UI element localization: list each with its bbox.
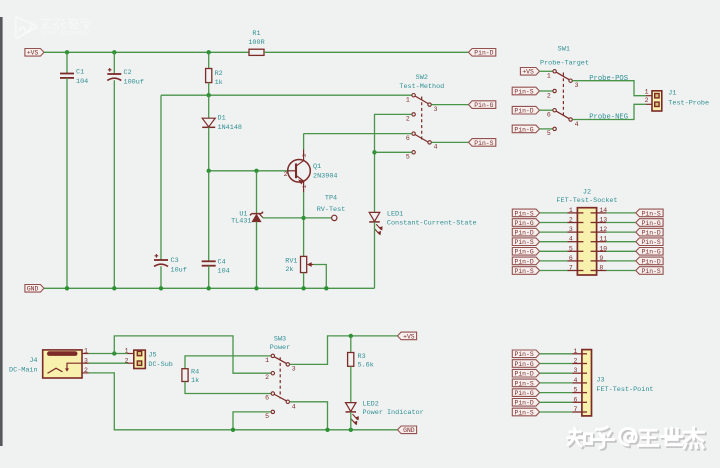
junction GND C2 <box>112 286 116 290</box>
wire J2 pin 9 <box>606 260 635 262</box>
svg-text:Pin-D: Pin-D <box>514 108 533 115</box>
switch SW2 pole A lever <box>415 96 428 104</box>
wire J2 pin 8 <box>606 270 635 272</box>
potentiometer RV1 2k <box>301 256 307 272</box>
svg-text:Pin-G: Pin-G <box>515 361 534 368</box>
svg-text:+VS: +VS <box>522 69 534 76</box>
svg-text:Pin-S: Pin-S <box>515 268 534 275</box>
pin 14 J2 <box>591 212 607 214</box>
junction GND C4 <box>207 286 211 290</box>
hierarchical label Pin-D J3 pin 3 <box>512 369 539 377</box>
svg-text:Pin-D: Pin-D <box>642 258 661 265</box>
svg-text:4: 4 <box>573 377 577 384</box>
svg-text:Pin-G: Pin-G <box>642 249 661 256</box>
svg-text:3: 3 <box>84 357 88 364</box>
hierarchical label Pin-S J2 pin 8 <box>636 267 663 275</box>
svg-text:8: 8 <box>599 265 603 272</box>
svg-text:J2: J2 <box>583 189 591 197</box>
pin 9 J2 <box>591 260 607 262</box>
svg-text:Pin-G: Pin-G <box>515 390 534 397</box>
svg-text:9: 9 <box>599 255 603 262</box>
svg-text:1: 1 <box>573 348 577 355</box>
svg-text:6: 6 <box>569 255 573 262</box>
svg-text:104: 104 <box>218 268 230 276</box>
resistor R3 5.6k <box>350 336 352 353</box>
hierarchical label Pin-S J2 pin 1 <box>512 209 539 217</box>
svg-text:Pin-S: Pin-S <box>474 140 493 147</box>
svg-text:Pin-S: Pin-S <box>515 380 534 387</box>
svg-text:GND: GND <box>27 286 39 293</box>
wire DC positive up-over to SW3 pin2 <box>114 336 271 373</box>
wire SW3 pin4 to ground rail <box>290 402 328 430</box>
hierarchical label Pin-S at SW1 <box>512 87 539 95</box>
wire +VS rail left <box>44 51 249 53</box>
svg-text:DC-Sub: DC-Sub <box>148 361 172 369</box>
svg-text:Pin-S: Pin-S <box>642 268 661 275</box>
pin 1 J2 <box>568 212 584 214</box>
svg-text:Probe-POS: Probe-POS <box>589 75 628 83</box>
wire R4 bottom to SW3 pin6 <box>185 382 271 394</box>
svg-text:Pin-D: Pin-D <box>642 230 661 237</box>
svg-text:5: 5 <box>406 154 410 161</box>
svg-text:10: 10 <box>599 245 607 252</box>
wire Pin-G to SW1 pin5 <box>540 128 553 130</box>
svg-text:2k: 2k <box>285 266 293 274</box>
wire Q1 emitter down <box>303 192 305 256</box>
switch SW1 dashed link <box>562 73 564 117</box>
svg-text:DC-Main: DC-Main <box>9 366 38 374</box>
svg-text:C4: C4 <box>218 259 226 267</box>
wire Pin-S to SW1 pin2 <box>540 90 553 92</box>
wire node R2 bottom horizontal <box>161 94 413 96</box>
svg-text:C1: C1 <box>76 69 84 77</box>
svg-text:6: 6 <box>265 395 269 402</box>
wire SW2 pin3 to Pin-G <box>432 104 469 106</box>
svg-text:2N3904: 2N3904 <box>313 172 337 180</box>
junction U1 top <box>254 169 258 173</box>
pin 2 J4 <box>82 372 89 374</box>
hierarchical label Pin-D J2 pin 3 <box>512 228 539 236</box>
wire J3 pin 1 <box>540 353 573 355</box>
svg-text:2: 2 <box>265 374 269 381</box>
svg-text:10uf: 10uf <box>171 266 187 274</box>
pin 2 J2 <box>568 222 584 224</box>
svg-text:Pin-G: Pin-G <box>474 102 493 109</box>
pin 1 J4 <box>82 353 89 355</box>
transistor Q1 2N3904 <box>288 160 311 183</box>
connector J3 FET-Test-Point <box>582 350 592 416</box>
switch SW3 dashed link <box>279 357 281 398</box>
svg-text:Pin-S: Pin-S <box>642 210 661 217</box>
svg-text:Pin-G: Pin-G <box>515 249 534 256</box>
svg-text:1: 1 <box>265 357 269 364</box>
wire J3 pin 6 <box>540 401 573 403</box>
svg-text:4: 4 <box>292 404 296 411</box>
pin 13 J2 <box>591 222 607 224</box>
pin 10 J2 <box>591 250 607 252</box>
svg-text:Pin-S: Pin-S <box>514 88 533 95</box>
wire Pin-D to SW1 pin6 <box>540 109 553 111</box>
svg-text:14: 14 <box>599 207 607 214</box>
shunt regulator U1 TL431 <box>256 171 258 214</box>
svg-text:Pin-S: Pin-S <box>515 409 534 416</box>
wire J3 pin 5 <box>540 392 573 394</box>
svg-text:LED2: LED2 <box>363 400 379 408</box>
hierarchical label Pin-S J3 pin 1 <box>512 350 539 358</box>
svg-text:Pin-S: Pin-S <box>515 351 534 358</box>
wire J2 pin 4 <box>540 241 568 243</box>
svg-text:Pin-G: Pin-G <box>642 220 661 227</box>
svg-text:6: 6 <box>573 396 577 403</box>
svg-text:C2: C2 <box>124 69 132 77</box>
svg-text:3: 3 <box>434 106 438 113</box>
hierarchical label Pin-G J2 pin 5 <box>512 248 539 256</box>
wire J4 pin1 to J5 pin1 <box>89 353 128 355</box>
wire SW1 pin3 to J1 pin1 Probe-POS <box>573 81 647 96</box>
resistor R2 <box>208 52 210 68</box>
wire Q1 collector up <box>303 134 305 150</box>
svg-text:TL431: TL431 <box>231 217 251 225</box>
svg-text:R3: R3 <box>358 353 366 361</box>
hierarchical label Pin-G J2 pin 10 <box>636 248 663 256</box>
svg-text:4: 4 <box>575 121 579 128</box>
power label +VS top-left <box>25 49 44 57</box>
wire J2 pin 3 <box>540 231 568 233</box>
svg-text:GND: GND <box>403 427 415 434</box>
wire J4 pin2 ground return <box>89 373 398 430</box>
wire GND rail <box>44 287 375 289</box>
pin 8 J2 <box>591 270 607 272</box>
connector J5 DC-Sub <box>134 350 146 368</box>
svg-text:2: 2 <box>84 367 88 374</box>
svg-text:Pin-D: Pin-D <box>515 230 534 237</box>
wire J4 pin3 to J5 pin2 <box>89 362 128 364</box>
capacitor C3 <box>160 95 162 260</box>
svg-text:7: 7 <box>569 265 573 272</box>
switch SW2 pole B lever <box>415 135 428 143</box>
wire J2 pin 6 <box>540 260 568 262</box>
wire SW2 pin4 to Pin-S <box>432 141 469 143</box>
junction C1 top <box>65 50 69 54</box>
wire R4 top to SW3 pin1 <box>185 356 271 369</box>
junction GND C3 <box>159 286 163 290</box>
svg-text:LED1: LED1 <box>387 211 403 219</box>
wire SW1 pin4 to J1 pin2 Probe-NEG <box>573 104 647 119</box>
hierarchical label Pin-S J2 pin 7 <box>512 267 539 275</box>
wire +VS rail right to Pin-D <box>264 51 469 53</box>
svg-text:1k: 1k <box>215 79 223 87</box>
pin 3 J2 <box>568 231 584 233</box>
hierarchical label Pin-D J2 pin 9 <box>636 257 663 265</box>
svg-text:J4: J4 <box>29 357 37 365</box>
junction LED2 bottom <box>349 428 353 432</box>
pin 2 J3 <box>572 363 587 365</box>
svg-text:1: 1 <box>569 207 573 214</box>
switch SW2 dashed link <box>421 97 423 140</box>
hierarchical label Pin-S J2 pin 11 <box>636 238 663 246</box>
svg-text:J5: J5 <box>148 351 156 359</box>
resistor R1 <box>249 49 264 55</box>
pin 3 J3 <box>572 372 587 374</box>
pin 7 J2 <box>568 270 584 272</box>
wire RV1 wiper to ground <box>313 265 326 289</box>
hierarchical label Pin-S J2 pin 14 <box>636 209 663 217</box>
pin 1 J3 <box>572 353 587 355</box>
svg-text:Test-Method: Test-Method <box>399 83 444 91</box>
svg-text:3: 3 <box>573 367 577 374</box>
svg-text:104: 104 <box>76 78 88 86</box>
hierarchical label Pin-D J2 pin 12 <box>636 228 663 236</box>
svg-text:1: 1 <box>406 97 410 104</box>
junction C2 top <box>112 50 116 54</box>
wire J3 pin 7 <box>540 411 573 413</box>
capacitor C4 <box>208 171 210 261</box>
hierarchical label Pin-G gate <box>469 101 496 109</box>
svg-text:6: 6 <box>547 112 551 119</box>
junction LED1 pin5 wire <box>372 150 376 154</box>
watermark chinese name <box>41 19 90 30</box>
pin 5 J2 <box>568 250 584 252</box>
power label +VS bottom <box>398 332 417 340</box>
wire J2 pin 11 <box>606 241 635 243</box>
junction pin4 route <box>325 428 329 432</box>
svg-text:1: 1 <box>84 348 88 355</box>
svg-text:SW3: SW3 <box>274 336 286 344</box>
pin 4 J3 <box>572 382 587 384</box>
hierarchical label Pin-G J3 pin 2 <box>512 360 539 368</box>
power label GND bottom <box>398 426 417 434</box>
hierarchical label Pin-G at SW1 <box>512 125 539 133</box>
wire J3 pin 4 <box>540 382 573 384</box>
wire RV1 bottom <box>303 273 305 289</box>
svg-text:Pin-G: Pin-G <box>514 126 533 133</box>
svg-text:R2: R2 <box>215 70 223 78</box>
hierarchical label Pin-D at SW1 <box>512 106 539 114</box>
wire J2 pin 10 <box>606 250 635 252</box>
svg-text:1k: 1k <box>191 377 199 385</box>
svg-text:3: 3 <box>575 82 579 89</box>
connector J1 Test-Probe <box>646 95 652 97</box>
wire +VS to SW1 pin1 <box>540 70 553 72</box>
svg-text:R4: R4 <box>191 369 199 377</box>
svg-text:12: 12 <box>599 226 607 233</box>
svg-text:2: 2 <box>645 97 649 104</box>
hierarchical label Pin-D drain <box>469 49 496 57</box>
power label GND left <box>25 285 44 293</box>
svg-text:+VS: +VS <box>27 50 39 57</box>
svg-text:2: 2 <box>573 358 577 365</box>
capacitor C2 <box>113 52 115 74</box>
svg-text:Probe-NEG: Probe-NEG <box>589 114 628 122</box>
svg-text:4: 4 <box>569 236 573 243</box>
svg-text:RV-Test: RV-Test <box>317 206 346 214</box>
svg-text:3: 3 <box>569 226 573 233</box>
svg-text:5: 5 <box>573 387 577 394</box>
svg-text:2: 2 <box>284 171 288 178</box>
wire Q1 base net <box>209 170 288 172</box>
junction GND wiper <box>324 286 328 290</box>
svg-text:2: 2 <box>547 92 551 99</box>
wire J2 pin 5 <box>540 250 568 252</box>
power label +VS at SW1 <box>520 68 539 76</box>
wire SW3 pin3 to +VS <box>290 336 398 365</box>
svg-text:2: 2 <box>569 217 573 224</box>
wire SW2 pin5 to LED1 line <box>375 151 412 153</box>
svg-text:Pin-S: Pin-S <box>515 210 534 217</box>
svg-text:5: 5 <box>547 130 551 137</box>
wire J3 pin 3 <box>540 372 573 374</box>
svg-text:3: 3 <box>292 365 296 372</box>
svg-text:TP4: TP4 <box>325 195 337 203</box>
svg-text:SW1: SW1 <box>558 46 570 54</box>
svg-text:Pin-D: Pin-D <box>515 258 534 265</box>
wire J2 pin 12 <box>606 231 635 233</box>
wire SW2 pin2 to LED1 line <box>375 113 412 115</box>
switch SW3 pole A lever <box>274 357 287 364</box>
led LED2 power indicator <box>346 403 357 412</box>
svg-text:J3: J3 <box>596 377 604 385</box>
svg-text:5: 5 <box>265 413 269 420</box>
junction J4 pin1 node <box>112 351 116 355</box>
svg-text:100uf: 100uf <box>124 78 144 86</box>
svg-text:Sine Acoustic: Sine Acoustic <box>41 28 92 37</box>
wire J2 pin 13 <box>606 222 635 224</box>
hierarchical label Pin-S J2 pin 4 <box>512 238 539 246</box>
junction GND U1 <box>254 286 258 290</box>
pin 2 J5 <box>128 362 134 364</box>
hierarchical label Pin-G J3 pin 5 <box>512 389 539 397</box>
svg-text:Pin-D: Pin-D <box>515 371 534 378</box>
junction emitter-ref-TP4 <box>301 216 305 220</box>
svg-text:11: 11 <box>599 236 607 243</box>
wire J2 pin 1 <box>540 212 568 214</box>
pin 6 J2 <box>568 260 584 262</box>
watermark logo triangle <box>16 17 37 38</box>
svg-text:4: 4 <box>434 144 438 151</box>
svg-text:5: 5 <box>569 245 573 252</box>
led LED1 constant current state <box>374 114 376 212</box>
svg-text:1: 1 <box>645 89 649 96</box>
pin 1 J5 <box>128 353 134 355</box>
capacitor C1 <box>66 52 68 73</box>
svg-text:1N4148: 1N4148 <box>218 124 242 132</box>
svg-text:RV1: RV1 <box>285 257 297 265</box>
svg-text:2: 2 <box>406 116 410 123</box>
pin 12 J2 <box>591 231 607 233</box>
svg-text:J1: J1 <box>668 90 676 98</box>
svg-text:100R: 100R <box>248 39 264 47</box>
switch SW3 pole B lever <box>274 394 287 401</box>
svg-text:FET-Test-Socket: FET-Test-Socket <box>556 197 617 205</box>
svg-text:6: 6 <box>406 135 410 142</box>
svg-text:Q1: Q1 <box>313 163 321 171</box>
hierarchical label Pin-S source <box>469 139 496 147</box>
test point TP4 <box>304 217 332 219</box>
junction GND C1 <box>65 286 69 290</box>
junction R2 top <box>207 50 211 54</box>
pin 5 J3 <box>572 392 587 394</box>
pin 3 J4 <box>82 362 89 364</box>
junction pin5 route <box>231 428 235 432</box>
hierarchical label Pin-G J2 pin 2 <box>512 219 539 227</box>
svg-text:3: 3 <box>301 154 308 157</box>
switch SW1 pole A lever <box>556 72 569 80</box>
svg-text:FET-Test-Point: FET-Test-Point <box>596 386 653 394</box>
svg-text:5.6k: 5.6k <box>358 361 374 369</box>
junction D1 bottom <box>207 169 211 173</box>
svg-text:C3: C3 <box>171 257 179 265</box>
junction R2 bottom <box>207 93 211 97</box>
wire SW2 pin6 to Q1 collector <box>304 133 412 135</box>
wire J2 pin 7 <box>540 270 568 272</box>
hierarchical label Pin-D J3 pin 6 <box>512 399 539 407</box>
video frame left edge bar <box>0 17 3 446</box>
svg-text:Power: Power <box>270 344 290 352</box>
svg-text:Test-Probe: Test-Probe <box>668 99 709 107</box>
pin 4 J2 <box>568 241 584 243</box>
diode D1 1N4148 <box>208 95 210 118</box>
pin 6 J3 <box>572 401 587 403</box>
hierarchical label Pin-S J3 pin 7 <box>512 408 539 416</box>
pin 11 J2 <box>591 241 607 243</box>
svg-text:7: 7 <box>573 406 577 413</box>
wire SW3 pin5 to ground rail <box>233 412 271 430</box>
wire J2 pin 2 <box>540 222 568 224</box>
junction R3 top <box>349 334 353 338</box>
svg-text:Pin-D: Pin-D <box>474 50 493 57</box>
connector J4 DC-Main barrel jack <box>43 350 82 378</box>
svg-text:Pin-S: Pin-S <box>515 239 534 246</box>
wire J2 pin 14 <box>606 212 635 214</box>
svg-text:13: 13 <box>599 217 607 224</box>
switch SW1 pole B lever <box>556 111 569 119</box>
svg-text:Constant-Current-State: Constant-Current-State <box>387 220 477 228</box>
svg-text:+VS: +VS <box>403 333 415 340</box>
svg-text:Power Indicator: Power Indicator <box>363 409 424 417</box>
svg-text:R1: R1 <box>252 30 260 38</box>
watermark zhihu user name <box>570 429 706 449</box>
svg-text:D1: D1 <box>218 115 226 123</box>
svg-text:1: 1 <box>547 73 551 80</box>
hierarchical label Pin-G J2 pin 13 <box>636 219 663 227</box>
wire U1 ref to emitter node <box>263 217 304 219</box>
svg-text:SW2: SW2 <box>416 74 428 82</box>
svg-text:Pin-D: Pin-D <box>515 400 534 407</box>
wire J3 pin 2 <box>540 363 573 365</box>
svg-text:Pin-G: Pin-G <box>515 220 534 227</box>
pin 7 J3 <box>572 411 587 413</box>
hierarchical label Pin-S J3 pin 4 <box>512 379 539 387</box>
hierarchical label Pin-D J2 pin 6 <box>512 257 539 265</box>
junction GND RV1 <box>301 286 305 290</box>
svg-text:Pin-S: Pin-S <box>642 239 661 246</box>
svg-text:Probe-Target: Probe-Target <box>540 60 589 68</box>
